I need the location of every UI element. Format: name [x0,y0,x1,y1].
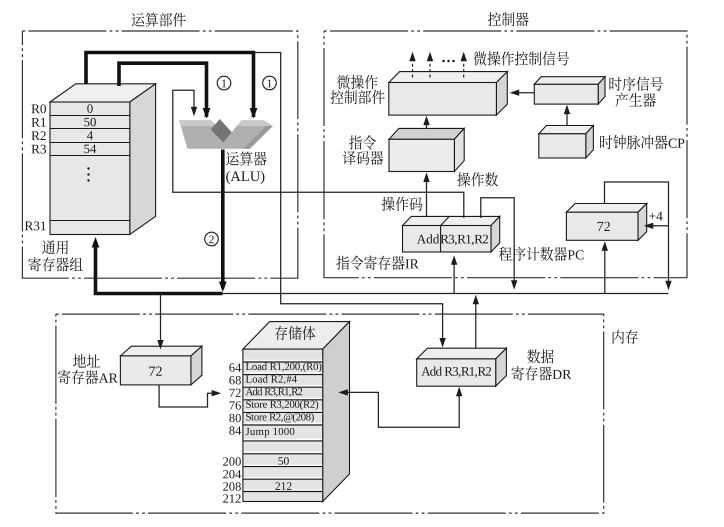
wire: CP to timing generator [566,108,568,125]
text label: label zhiling-IR [336,256,418,270]
text label: memory address 208 [223,482,241,490]
text label: register label R1 [31,118,45,127]
text label: label chengxu-PC [499,247,584,261]
ALU right wing [221,120,273,149]
dashed micro-op control signal arrows [412,56,414,77]
thick wire: register output 1 to ALU right input [86,53,254,118]
text label: IR opcode Add [417,234,439,243]
text label: label jicunqi-DR [511,366,571,380]
register file row separators [50,116,130,221]
text label: register label R2 [31,131,45,140]
wire: timing generator to micro-op unit [513,92,534,94]
memory frame border [56,314,604,513]
instruction register IR box [403,216,500,225]
memory row separators with highlight slivers [244,360,323,362]
text label: circled two [209,236,214,244]
text label: memory address 204 [223,470,241,478]
text label: register label R31 [25,221,46,230]
text label: register value 0 [87,104,92,113]
text label: register label R3 [31,145,46,154]
text label: register value 54 [84,145,96,154]
text label: label kongzhibujian [330,90,384,104]
text label: label caozuoshu [457,172,498,186]
text label: memory address 80 [229,414,241,422]
ALU left wing highlight [179,120,217,126]
text label: label shuju [527,349,554,363]
wire: PC increment loop [605,182,669,286]
text label: memory address 212 [223,494,241,502]
wire: bus branch to AR [160,294,162,346]
main memory array box [243,322,350,350]
ALU left wing [179,120,222,149]
wire: bus up into PC [604,245,606,294]
wire: operand path IR to ALU feedback input [173,90,464,218]
text label: memory cell text Store R3,2 [246,400,318,410]
wire: IR opcode to decoder [426,176,428,216]
text label: label shizhong-CP [600,135,684,149]
controller frame border [324,31,687,278]
ALU right wing highlight [237,120,272,126]
text label: memory cell text Load R1,20 [246,363,322,373]
text label: label chanshengqi [615,93,656,107]
text label: label shixu-xinhao [609,77,662,91]
text label: memory address 68 [229,376,241,384]
circled 1 marker left [217,76,231,90]
text label: memory value 212 [275,482,291,490]
program counter PC box [566,204,646,213]
text label: memory address 72 [230,389,241,397]
circled 1 marker right [263,76,277,90]
text label: AR value 72 [149,367,161,376]
wire: register store path to DR [254,53,443,344]
text label: memory address 76 [230,401,241,409]
ellipsis between signal arrows [442,60,455,63]
wire: IR operand field to bus [481,198,514,286]
text label: register value 50 [84,118,96,127]
text label: label cunchuti [275,326,315,340]
text label: label weicaozuo [337,75,378,89]
thick wire: ALU result down [221,150,225,289]
ALU center diamond [211,119,232,142]
text label: ALU sublabel [226,171,264,184]
text label: label yimaqi [343,151,384,165]
circled 2 marker [205,232,219,246]
thick wire: result bus into register file [96,242,223,294]
text label: title yunsuan-bujian [132,13,186,27]
text label: label yunsuanqi [226,151,266,165]
text label: memory cell text Load R2,#4 [246,375,297,384]
text label: title kongzhiqi [488,12,529,26]
timing signal generator box [534,77,605,85]
wire: memory-DR data path [342,391,459,428]
text label: circled one left [222,80,226,88]
text label: memory value 50 [278,457,288,465]
text label: register value 4 [87,131,93,139]
text label: label dizhi [73,354,100,368]
data register DR box [417,348,507,359]
text label: label tongyong [42,240,68,254]
functional unit frame border [22,31,297,278]
instruction decoder box [389,128,464,139]
text label: label +4 [649,212,662,221]
text label: memory address 64 [229,363,241,371]
IR field divider [440,226,442,253]
vertical ellipsis in register file [87,167,89,181]
wire: +4 branch into PC [648,225,669,227]
text label: label jicunqi-AR [58,370,118,384]
text label: memory address 200 [223,457,241,465]
wire: DR up to bus [475,299,477,349]
text label: PC value 72 [598,222,610,231]
text label: DR content [421,367,491,378]
thick wire: register output 2 to ALU left input [119,63,207,117]
text label: label zhiling [349,135,376,149]
wire: decoder to micro-op unit [426,119,428,128]
text label: memory cell text Store R2,@ [246,413,314,423]
text label: circled one right [268,80,272,88]
text label: memory cell text Add R3,R1, [246,388,303,397]
text label: label jicunqizu [28,257,82,271]
wire: AR address to memory [159,385,217,407]
text label: memory cell text Jump 1000 [246,428,295,437]
text label: memory address 84 [229,426,241,434]
ALU right wing shadow edge [244,125,273,149]
general register file box [50,84,156,102]
clock pulse CP box [539,126,594,134]
wire: bus branch up into IR [453,259,455,294]
text label: label weicaozuo-xinhao [474,51,570,65]
address register AR box [120,346,201,356]
text label: label neicun [613,330,638,344]
wire: main horizontal bus [223,293,669,295]
text label: IR operands [441,235,488,246]
micro-operation control unit box [389,72,508,83]
text label: register label R0 [31,104,46,113]
text label: label caozuoma [382,197,423,211]
